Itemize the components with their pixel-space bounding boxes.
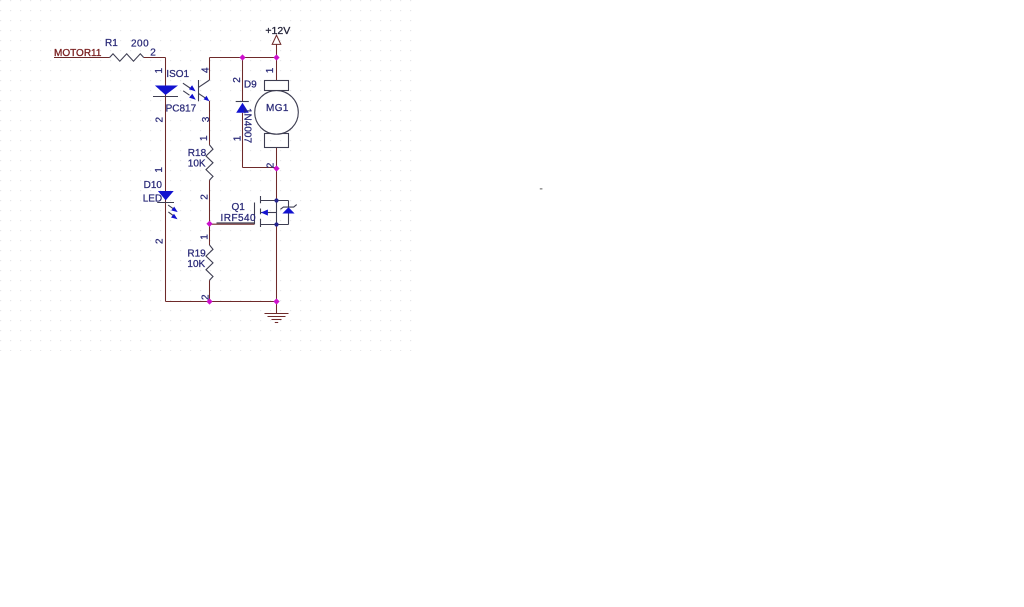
- svg-text:2: 2: [155, 238, 166, 244]
- svg-text:1: 1: [154, 68, 165, 74]
- svg-text:2: 2: [232, 77, 243, 83]
- svg-text:ISO1: ISO1: [166, 69, 189, 80]
- svg-text:R1: R1: [105, 38, 118, 49]
- svg-text:MOTOR11: MOTOR11: [54, 48, 102, 59]
- svg-text:4: 4: [201, 67, 212, 73]
- svg-text:200: 200: [131, 38, 149, 49]
- svg-text:3: 3: [201, 116, 212, 122]
- svg-text:IRF540: IRF540: [221, 213, 257, 224]
- svg-text:D9: D9: [244, 79, 257, 90]
- svg-text:MG1: MG1: [266, 103, 289, 114]
- svg-text:1: 1: [265, 67, 276, 73]
- svg-text:1: 1: [199, 135, 210, 141]
- svg-text:1: 1: [154, 167, 165, 173]
- svg-text:1: 1: [200, 234, 211, 240]
- svg-text:+12V: +12V: [265, 25, 290, 37]
- svg-text:10K: 10K: [188, 159, 206, 170]
- svg-text:2: 2: [150, 48, 156, 59]
- svg-text:2: 2: [265, 162, 276, 168]
- svg-text:D10: D10: [144, 180, 163, 191]
- svg-text:1N4007: 1N4007: [242, 108, 253, 143]
- svg-text:PC817: PC817: [166, 103, 197, 114]
- svg-text:R19: R19: [187, 248, 206, 259]
- svg-text:1: 1: [232, 135, 243, 141]
- svg-text:Q1: Q1: [232, 202, 246, 213]
- svg-text:2: 2: [200, 194, 211, 200]
- svg-text:2: 2: [201, 294, 212, 300]
- svg-text:10K: 10K: [187, 259, 205, 270]
- svg-text:2: 2: [155, 117, 166, 123]
- svg-text:LED: LED: [143, 194, 162, 205]
